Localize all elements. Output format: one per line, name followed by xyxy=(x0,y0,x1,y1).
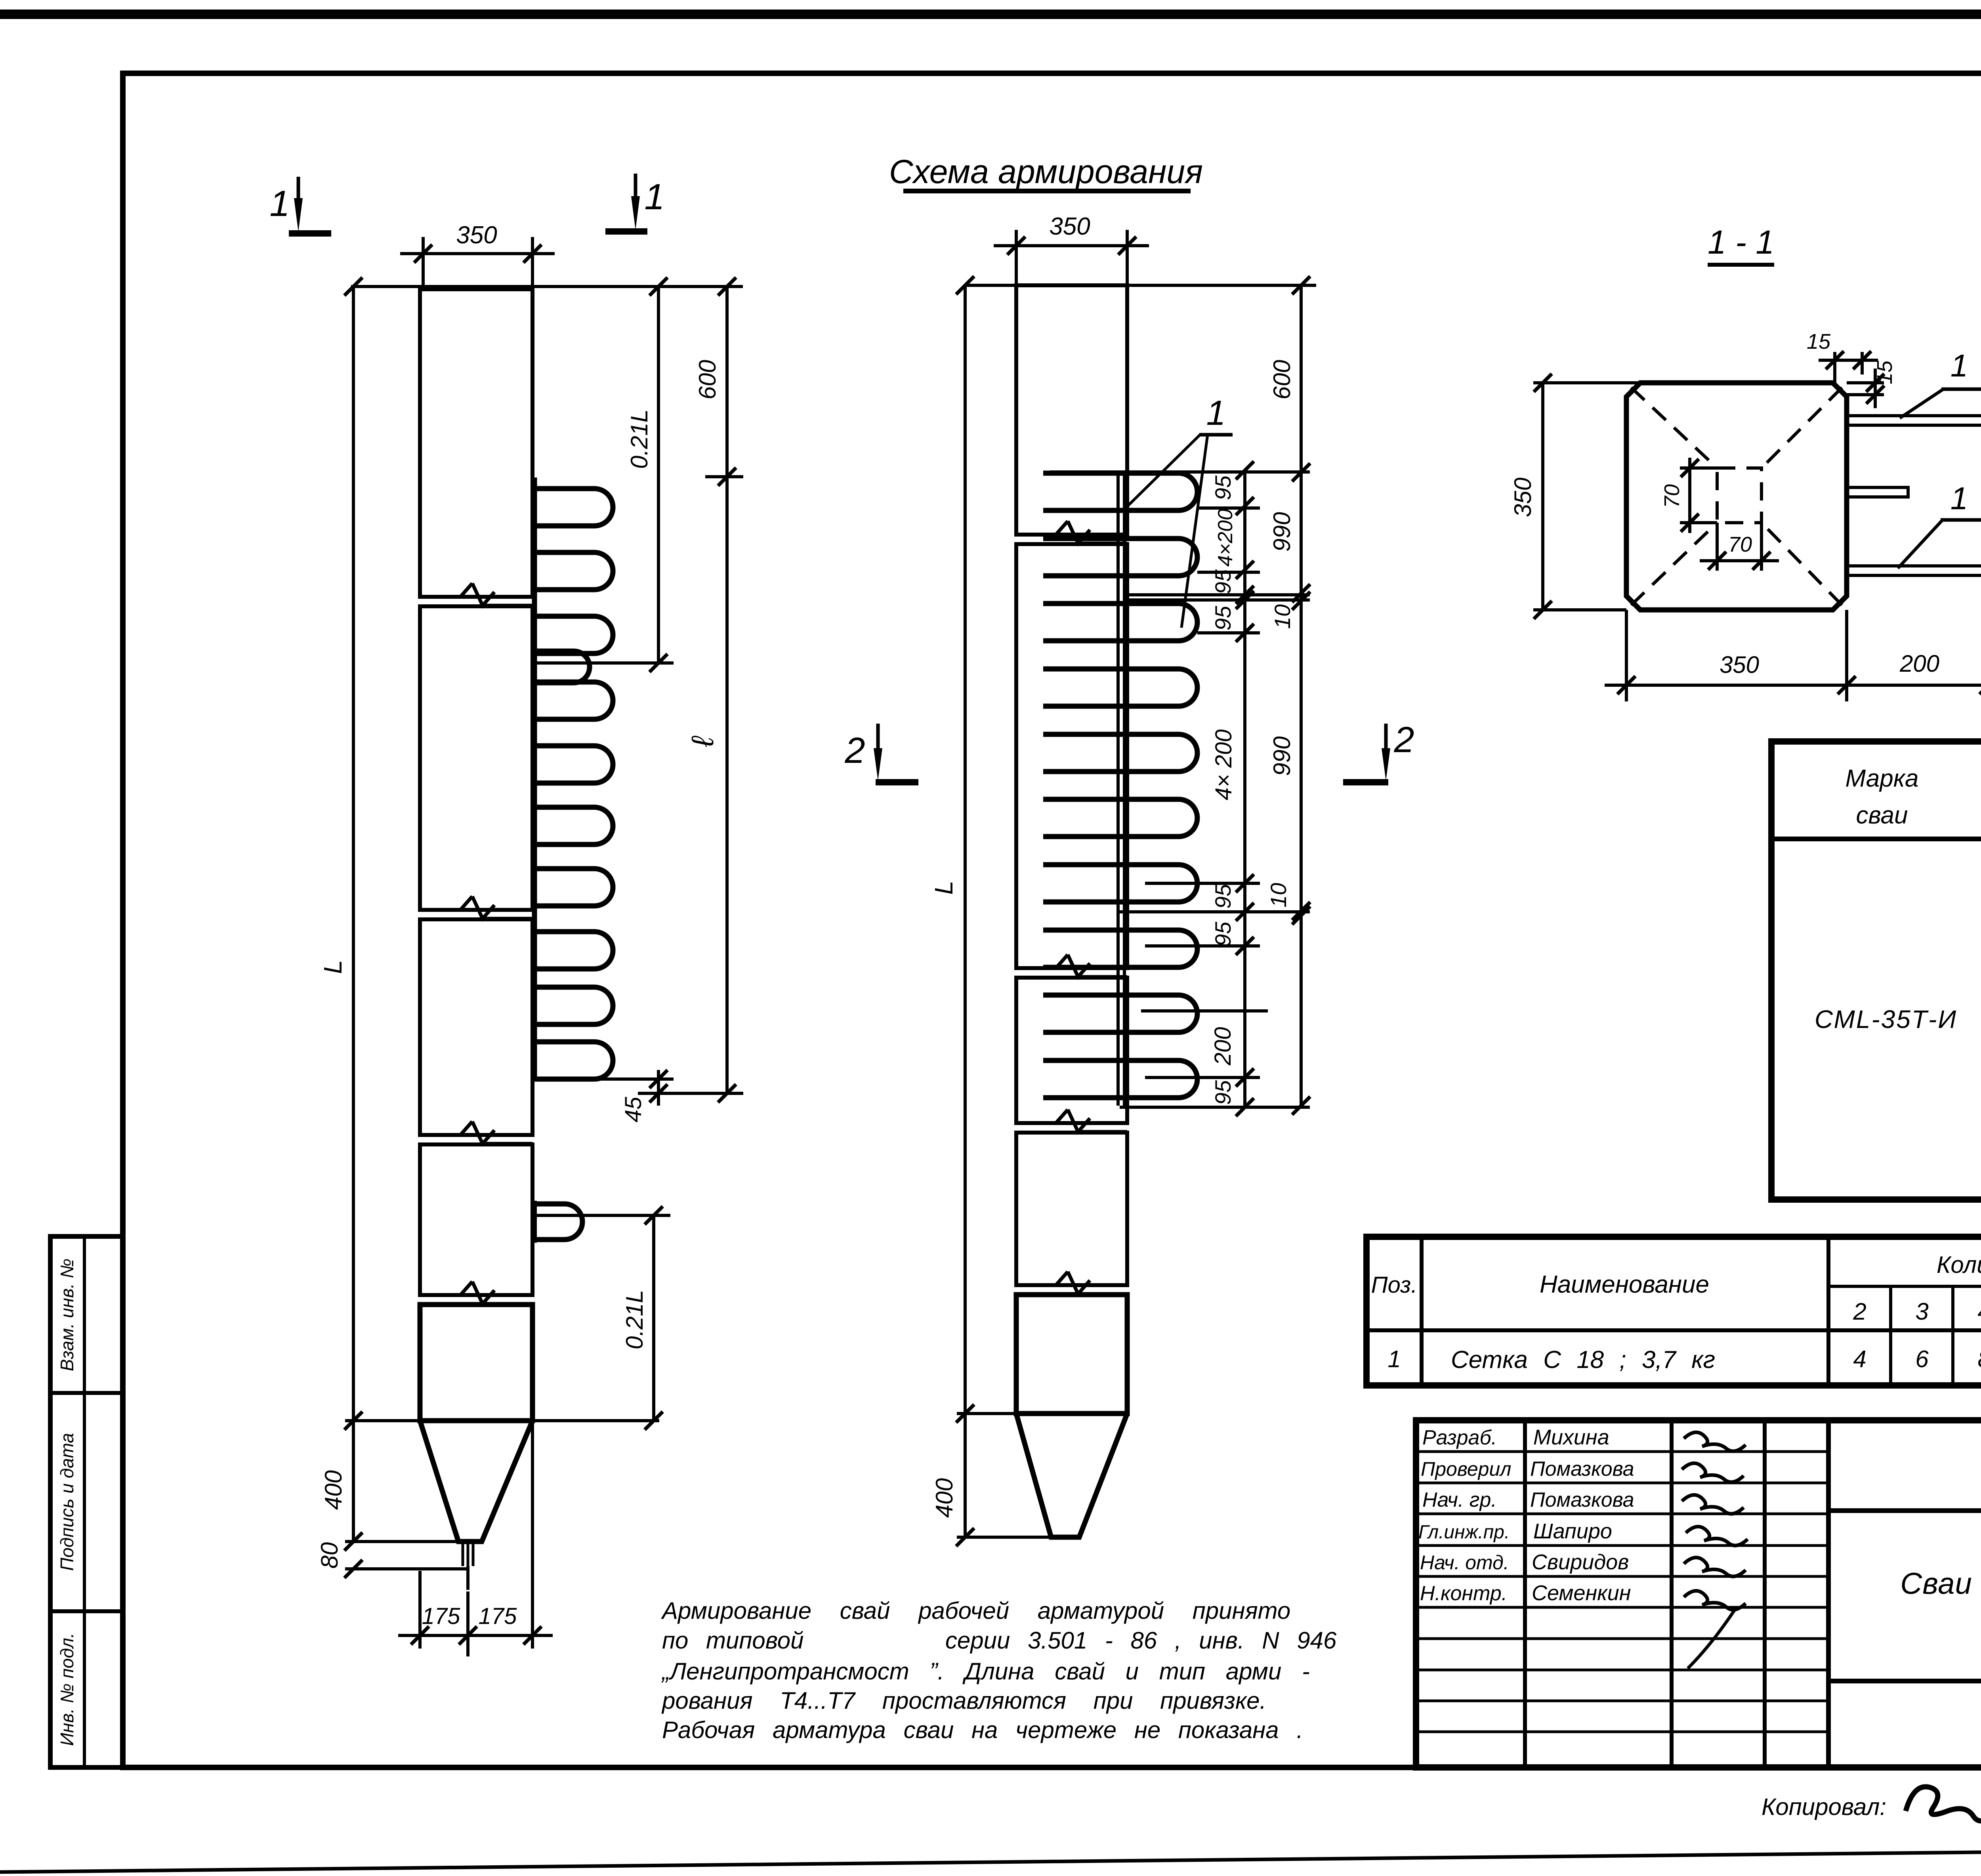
pile 1 break mark 2 xyxy=(420,896,532,919)
svg-text:600: 600 xyxy=(694,360,721,399)
svg-text:по типовой серии 3.50: по типовой серии 3.501 - 86 , инв. N 946 xyxy=(662,1627,1337,1654)
pile 1 mesh loop 10 xyxy=(532,1042,613,1079)
pile 2 horizontal extension at tip xyxy=(957,1536,1051,1539)
svg-text:600: 600 xyxy=(1269,360,1295,399)
left margin strip boxes xyxy=(50,1236,123,1767)
pile 2 mesh edge wires xyxy=(1118,472,1124,1106)
pile 2 body segment 4 xyxy=(1016,1133,1127,1285)
section 1-1 rebar middle xyxy=(1847,487,1908,497)
pile 1 mesh loop 1 xyxy=(532,489,613,526)
svg-text:990: 990 xyxy=(1269,736,1295,776)
pile 2 mesh loop 5 xyxy=(1043,734,1197,772)
section mark 2 (left) xyxy=(844,724,918,782)
svg-text:990: 990 xyxy=(1269,512,1295,552)
svg-text:1: 1 xyxy=(1387,1346,1401,1372)
pile 2 extension lines right xyxy=(1050,472,1310,1107)
pile 1 lower isolated loop xyxy=(532,1201,582,1243)
svg-text:ℓ: ℓ xyxy=(685,736,720,747)
pile 2 inner dimension chain line xyxy=(1236,461,1254,1116)
section 1-1 leader 1 (bottom) xyxy=(1898,481,1981,568)
pile 1 mesh loop 3 xyxy=(532,616,613,653)
pile 2 horizontal extension at taper start xyxy=(957,1412,1016,1415)
svg-text:175: 175 xyxy=(422,1603,461,1629)
svg-text:400: 400 xyxy=(931,1478,958,1518)
svg-text:95: 95 xyxy=(1210,569,1235,594)
section 1-1 dim 350 vertical xyxy=(1510,374,1640,619)
pile 1 mesh loop 2 xyxy=(532,552,613,590)
svg-text:3: 3 xyxy=(1915,1298,1928,1325)
pile 2 dim 350 (top width) xyxy=(994,213,1149,285)
pile 1 mesh loop 6 xyxy=(532,807,613,844)
svg-text:350: 350 xyxy=(456,222,497,249)
title block signature 6 xyxy=(1684,1591,1746,1610)
svg-text:70: 70 xyxy=(1728,533,1752,556)
svg-text:6: 6 xyxy=(1915,1346,1929,1372)
bottom copier signature xyxy=(1906,1787,1981,1841)
svg-text:350: 350 xyxy=(1720,651,1759,678)
pile 2 mesh loop 9 xyxy=(1043,995,1197,1032)
svg-text:0.21L: 0.21L xyxy=(626,409,653,469)
pile 2 break mark 3 xyxy=(1016,1110,1127,1133)
section 1-1 dim 70 vertical xyxy=(1660,458,1717,533)
section 1-1 rebar top xyxy=(1847,416,1981,425)
section 1-1 dim 15 pair xyxy=(1807,330,1897,408)
svg-text:Марка: Марка xyxy=(1845,765,1918,792)
table 2 (items) frame xyxy=(1366,1237,1981,1385)
svg-text:1 - 1: 1 - 1 xyxy=(1708,224,1774,261)
title block signature 5 xyxy=(1684,1557,1746,1576)
pile 1 horizontal extension at tip xyxy=(345,1540,458,1543)
svg-text:1: 1 xyxy=(644,177,664,217)
svg-text:1: 1 xyxy=(1950,348,1968,383)
svg-text:2: 2 xyxy=(844,730,865,771)
pile 2 outer dimension chain line xyxy=(1292,285,1310,1115)
svg-text:Подпись и дата: Подпись и дата xyxy=(57,1433,77,1571)
pile 1 break mark 4 xyxy=(420,1282,532,1305)
svg-text:Армирование свай рабочей ар: Армирование свай рабочей арматурой приня… xyxy=(661,1597,1290,1624)
pile 2 break mark 4 xyxy=(1016,1272,1127,1295)
section mark 1 (left) xyxy=(269,177,331,233)
pile 1 body segment 3 xyxy=(420,919,532,1135)
svg-text:Количество на ℓ , м: Количество на ℓ , м xyxy=(1937,1251,1981,1278)
svg-text:1: 1 xyxy=(1950,481,1968,516)
svg-text:350: 350 xyxy=(1510,478,1536,517)
svg-text:350: 350 xyxy=(1049,213,1090,240)
pile 1 dim line L (left) xyxy=(344,287,363,1578)
svg-text:Копировал:: Копировал: xyxy=(1762,1794,1886,1820)
svg-text:Инв. № подл.: Инв. № подл. xyxy=(57,1633,77,1746)
pile 2 mesh loop 2 xyxy=(1043,539,1197,576)
pile 1 horizontal extension below tip xyxy=(345,1567,468,1570)
svg-text:СМL-35Т-И: СМL-35Т-И xyxy=(1815,1005,1957,1034)
title block signature 3 xyxy=(1682,1495,1744,1514)
title block long signature stroke xyxy=(1688,1609,1735,1668)
svg-text:70: 70 xyxy=(1660,484,1684,508)
svg-text:4× 200: 4× 200 xyxy=(1211,729,1237,800)
svg-text:95: 95 xyxy=(1210,884,1235,909)
pile 2 top dimension line xyxy=(956,276,1316,294)
svg-text:Сетка С 18 ; 3,7 кг: Сетка С 18 ; 3,7 кг xyxy=(1451,1346,1715,1374)
pile 1 dim 0.21L (upper) xyxy=(535,287,674,672)
pile 2 body segment 5 xyxy=(1016,1295,1127,1414)
svg-text:Нач. гр.: Нач. гр. xyxy=(1422,1488,1497,1511)
svg-text:200: 200 xyxy=(1210,1027,1236,1066)
title block frame xyxy=(1416,1420,1981,1767)
svg-text:10: 10 xyxy=(1266,883,1291,907)
svg-text:рования Т4...Т7 проставляютс: рования Т4...Т7 проставляются при привяз… xyxy=(661,1687,1266,1714)
svg-text:400: 400 xyxy=(320,1470,347,1510)
pile 1 mesh loop 4 xyxy=(532,682,613,719)
svg-text:4×200: 4×200 xyxy=(1214,509,1237,567)
pile 1 break mark 1 xyxy=(420,583,532,606)
page top border xyxy=(0,10,1981,19)
pile 2 dim line L (left) xyxy=(956,285,974,1546)
pile 1 mesh loop 8 xyxy=(532,932,613,969)
pile 1 dim 175/175 xyxy=(398,1423,553,1656)
title Схема армирования xyxy=(889,153,1203,191)
svg-text:Свиридов: Свиридов xyxy=(1532,1550,1629,1574)
svg-text:95: 95 xyxy=(1210,1080,1235,1105)
pile 1 mesh loop 5 xyxy=(532,746,613,783)
svg-text:Разраб.: Разраб. xyxy=(1422,1426,1497,1449)
pile 2 mesh loop 3 xyxy=(1043,604,1197,641)
svg-text:Шапиро: Шапиро xyxy=(1533,1519,1612,1543)
svg-text:0.21L: 0.21L xyxy=(621,1290,648,1349)
section 1-1 title xyxy=(1708,224,1774,265)
svg-text:Семенкин: Семенкин xyxy=(1532,1581,1631,1605)
pile 1 horizontal extension at taper start xyxy=(345,1419,659,1422)
pile 2 mesh loop 7 xyxy=(1043,865,1197,902)
svg-text:95: 95 xyxy=(1210,475,1235,500)
svg-text:10: 10 xyxy=(1270,604,1295,629)
svg-text:80: 80 xyxy=(316,1542,343,1569)
section 1-1 leader 1 (top) xyxy=(1900,348,1981,418)
section mark 1 (right) xyxy=(605,174,665,231)
svg-text:Помазкова: Помазкова xyxy=(1530,1488,1634,1511)
pile 2 mesh loop 4 xyxy=(1043,669,1197,706)
svg-text:2: 2 xyxy=(1853,1298,1866,1325)
pile 2 mesh loop 1 xyxy=(1043,473,1197,510)
svg-text:200: 200 xyxy=(1899,650,1939,677)
svg-text:Гл.инж.пр.: Гл.инж.пр. xyxy=(1418,1522,1510,1543)
svg-text:4: 4 xyxy=(1853,1346,1866,1372)
svg-text:L: L xyxy=(929,881,958,895)
pile 2 tip taper xyxy=(1016,1414,1127,1537)
pile 2 leader label 1 xyxy=(1128,393,1233,628)
title block signature 4 xyxy=(1686,1526,1748,1546)
pile 2 mesh loop 8 xyxy=(1043,930,1197,967)
svg-text:Помазкова: Помазкова xyxy=(1530,1458,1634,1481)
pile 1 mesh edge wire xyxy=(532,478,537,1079)
pile 1 body segment 4 xyxy=(420,1144,532,1295)
section 1-1 dim 70 horizontal xyxy=(1700,523,1779,571)
svg-text:95: 95 xyxy=(1210,606,1235,630)
page bottom border xyxy=(0,1846,1981,1872)
pile 1 dim 0.21L (lower) xyxy=(536,1206,670,1430)
svg-text:Взам. инв. №: Взам. инв. № xyxy=(57,1259,77,1372)
svg-text:Наименование: Наименование xyxy=(1540,1271,1709,1298)
svg-text:1: 1 xyxy=(269,183,290,224)
svg-text:Рабочая арматура сваи на ч: Рабочая арматура сваи на чертеже не пока… xyxy=(662,1717,1303,1743)
svg-text:2: 2 xyxy=(1393,720,1414,760)
title block signature 2 xyxy=(1682,1463,1744,1482)
pile 2 body segment 3 xyxy=(1016,978,1127,1123)
svg-text:L: L xyxy=(319,960,347,974)
svg-text:95: 95 xyxy=(1210,921,1235,946)
pile 1 mesh loop 9 xyxy=(532,987,613,1024)
table 1 (pile marks) frame xyxy=(1771,741,1981,1200)
section mark 2 (right) xyxy=(1343,720,1414,782)
pile 1 body segment 1 xyxy=(420,289,532,597)
pile 1 break mark 3 xyxy=(420,1121,532,1144)
pile 1 mesh loop 7 xyxy=(532,869,613,906)
svg-text:Схема армирования: Схема армирования xyxy=(889,153,1203,190)
pile 2 mesh loop 6 xyxy=(1043,799,1197,837)
section 1-1 dashed pyramid lines xyxy=(1631,388,1842,605)
svg-text:Проверил: Проверил xyxy=(1421,1458,1511,1480)
svg-text:Поз.: Поз. xyxy=(1371,1272,1418,1298)
pile 1 tip taper xyxy=(420,1421,532,1542)
svg-text:15: 15 xyxy=(1807,330,1831,353)
svg-text:Нач. отд.: Нач. отд. xyxy=(1420,1551,1509,1574)
pile 1 dim 45 xyxy=(532,1070,743,1122)
section 1-1 bottom dims 350 and 200 xyxy=(1605,576,1981,701)
svg-text:175: 175 xyxy=(479,1603,517,1629)
svg-text:Сваи СМL - 35 Т - И: Сваи СМL - 35 Т - И xyxy=(1900,1567,1981,1601)
pile 2 break mark 1 xyxy=(1016,521,1127,544)
svg-text:сваи: сваи xyxy=(1856,802,1908,829)
pile 1 dim 350 (top width) xyxy=(400,222,555,289)
pile 2 body segment 2 xyxy=(1016,544,1127,968)
pile 2 mesh loop 10 xyxy=(1043,1060,1197,1098)
pile 1 top dimension line xyxy=(344,277,743,296)
svg-text:45: 45 xyxy=(620,1097,646,1122)
section 1-1 pile cross-section square xyxy=(1626,383,1847,610)
svg-text:15: 15 xyxy=(1873,360,1897,384)
svg-text:1: 1 xyxy=(1206,393,1226,432)
pile 2 body segment 1 xyxy=(1016,285,1127,535)
svg-text:„Ленгипротрансмост ”. Длина с: „Ленгипротрансмост ”. Длина свай и тип а… xyxy=(661,1658,1310,1685)
svg-text:Н.контр.: Н.контр. xyxy=(1420,1582,1507,1605)
svg-text:4: 4 xyxy=(1977,1298,1981,1325)
svg-text:Михина: Михина xyxy=(1533,1425,1609,1449)
pile 1 dim line 600 / l (right) xyxy=(705,287,743,1102)
pile 2 break mark 2 xyxy=(1016,955,1127,978)
pile 1 tip reinforcement hairs xyxy=(463,1542,473,1590)
section 1-1 rebar bottom xyxy=(1847,566,1981,575)
title block signature 1 xyxy=(1684,1432,1746,1451)
pile 1 mesh small overlap loop xyxy=(532,651,590,683)
svg-text:8: 8 xyxy=(1977,1346,1981,1372)
pile 1 body segment 2 xyxy=(420,606,532,910)
pile 1 body segment 5 xyxy=(420,1305,532,1421)
